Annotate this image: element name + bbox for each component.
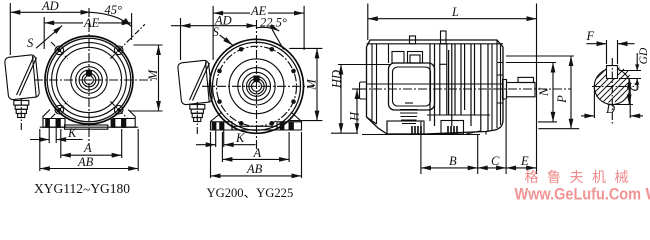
dimension K view2	[196, 131, 256, 147]
view1 ground line	[40, 126, 138, 128]
view1 shaft keyway	[87, 71, 92, 76]
svg-text:C: C	[491, 154, 500, 168]
side view fins	[430, 44, 488, 132]
view1 right foot	[111, 110, 135, 128]
side view left end ring	[367, 44, 388, 134]
view2 right foot	[277, 112, 302, 130]
side view terminal box	[389, 63, 435, 110]
dimension B	[421, 121, 478, 174]
side view left bearing boss	[360, 82, 367, 99]
svg-text:H: H	[348, 111, 362, 122]
side view front foot	[387, 121, 424, 134]
svg-text:M: M	[146, 69, 160, 81]
side view rear foot	[441, 121, 464, 135]
dimension A view1	[61, 129, 122, 158]
dimension K view1	[30, 127, 83, 143]
svg-text:W: W	[646, 185, 650, 204]
motor front view 1 body circles	[45, 36, 133, 124]
view2 bottom plate	[232, 126, 277, 130]
view2 cable gland	[190, 102, 205, 135]
svg-text:S: S	[27, 36, 34, 50]
dimension C	[478, 100, 506, 174]
svg-text:XYG112~YG180: XYG112~YG180	[34, 181, 130, 197]
side view shaft centerline	[358, 88, 571, 90]
svg-text:AB: AB	[77, 155, 94, 169]
dimension E	[506, 167, 536, 169]
view1 bottom plate	[65, 125, 108, 129]
side view outline	[367, 40, 504, 134]
dimension F	[586, 40, 634, 64]
svg-text:AD: AD	[41, 0, 59, 13]
view2 ground line	[211, 129, 302, 131]
view1 cable gland	[14, 98, 29, 130]
dimension AE view2	[213, 6, 304, 60]
view1 bolt hole top-left	[51, 42, 68, 59]
motor front view 2 body circles	[210, 39, 304, 133]
view1 bolt hole bottom-right	[110, 101, 127, 118]
svg-text:YG200、YG225: YG200、YG225	[207, 186, 294, 200]
svg-text:AE: AE	[83, 16, 100, 30]
dimension AD view1	[10, 3, 90, 55]
svg-text:AB: AB	[246, 162, 263, 176]
svg-text:L: L	[451, 5, 459, 19]
dimension N	[506, 63, 557, 122]
svg-text:A: A	[253, 146, 262, 160]
svg-text:K: K	[235, 131, 245, 145]
view2 shaft keyway	[254, 76, 259, 81]
svg-text:Www.GeLufu.Com: Www.GeLufu.Com	[515, 185, 642, 204]
dimension D	[581, 88, 643, 118]
view1 terminal box	[4, 54, 39, 100]
view1 horizontal centerline	[34, 79, 152, 81]
22.5 degree arc view2	[257, 27, 280, 31]
dimension A view2	[222, 132, 289, 162]
svg-text:22.5°: 22.5°	[260, 16, 287, 30]
svg-text:E: E	[520, 154, 529, 168]
side view lifting lug	[410, 36, 416, 44]
view1 vertical centerline	[88, 8, 90, 146]
dimension AD view2	[171, 18, 257, 60]
svg-text:HD: HD	[330, 70, 344, 89]
svg-text:45°: 45°	[105, 3, 123, 17]
view2 bolt holes x8	[0, 0, 1, 1]
side view fan cover bottom	[466, 131, 486, 135]
section centerlines	[611, 58, 613, 125]
svg-text:P: P	[555, 95, 569, 104]
dimension HD	[331, 65, 390, 134]
svg-text:B: B	[449, 154, 457, 168]
dimension M view2	[289, 48, 322, 120]
svg-text:D: D	[605, 102, 615, 116]
svg-text:A: A	[83, 141, 92, 155]
shaft section key	[607, 66, 618, 79]
dimension AE view1	[44, 13, 131, 49]
view1 bolt hole top-right	[110, 24, 144, 58]
dimension M view1	[130, 45, 163, 111]
side view fin bottom band	[427, 114, 490, 116]
svg-text:N: N	[537, 87, 551, 97]
svg-text:S: S	[213, 25, 220, 39]
view2 left foot	[211, 112, 233, 130]
side view box top details	[392, 52, 404, 64]
dimension P	[506, 56, 579, 129]
side view gland spring	[400, 103, 418, 124]
view1 bolt hole bottom-left	[51, 101, 68, 118]
side view shaft	[503, 77, 536, 99]
side view lifting eye	[440, 31, 447, 64]
shaft section circle	[594, 69, 630, 105]
side view fan cover rings	[492, 40, 503, 131]
side view box riser	[388, 44, 390, 63]
dimension H	[352, 89, 366, 133]
view2 vertical centerline	[256, 20, 258, 150]
svg-text:F: F	[586, 29, 595, 43]
dimension AB view1	[40, 129, 138, 171]
svg-text:K: K	[67, 126, 77, 140]
side view ground line	[362, 134, 480, 136]
dimension L	[368, 4, 537, 175]
view2 horizontal centerline	[202, 85, 314, 87]
dimension GD	[619, 53, 641, 90]
side view body seam line	[367, 83, 503, 85]
view1 left foot	[43, 110, 65, 128]
view2 terminal box	[177, 60, 212, 105]
45 degree arc view1	[91, 12, 132, 26]
side view top edge double line	[367, 43, 504, 45]
svg-text:M: M	[305, 79, 319, 91]
shaft section hatching	[595, 67, 631, 103]
view2 bolt diagonal	[272, 29, 284, 49]
svg-text:G: G	[628, 82, 642, 91]
dimension G	[612, 79, 633, 105]
svg-text:格鲁夫机械: 格鲁夫机械	[525, 169, 638, 185]
dimension AB view2	[211, 132, 302, 178]
svg-text:GD: GD	[638, 47, 650, 64]
